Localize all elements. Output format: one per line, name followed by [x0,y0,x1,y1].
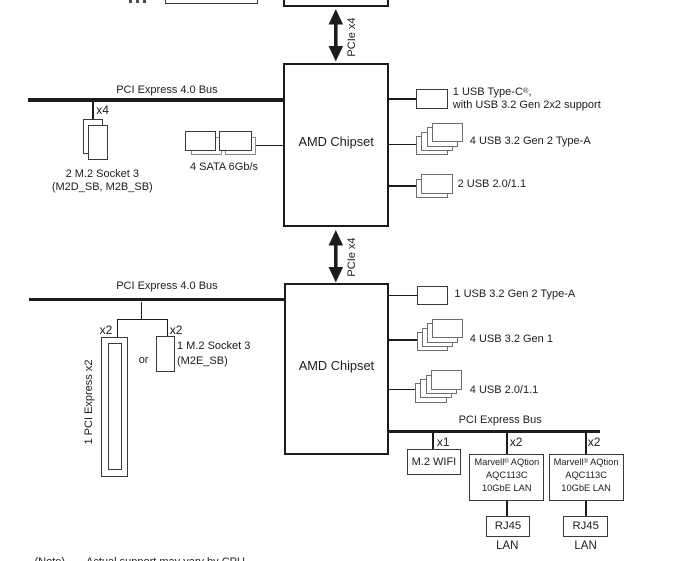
label 4 USB 3.2 Gen 2 Type-A [470,136,591,147]
wire: chipset2 to USB box [389,295,416,297]
branch T-bar wire [117,319,169,321]
label x1 [437,436,450,448]
label 1 PCI Express x2 (rotated) [83,352,95,452]
bus 2 label [116,281,218,292]
label 2 USB 2.0/1.1 [458,179,527,190]
label 4 USB 3.2 Gen 1 [470,334,553,345]
2 USB 2.0/1.1 stack icon [416,179,448,199]
label PCIe x4 (top) [346,0,358,77]
label PCI Express Bus [459,415,542,426]
bus 2: PCI Express 4.0 Bus [29,298,284,302]
label 1 M.2 Socket 3 [177,339,250,368]
Marvell AQtion LAN box 1 [469,454,544,502]
M.2 socket box (M2E_SB) [156,336,175,372]
label PCIe x4 (bottom) [346,217,358,297]
label x4 [96,104,109,116]
label 4 USB 2.0/1.1 [470,385,539,396]
USB Type-C box [416,89,448,109]
label 1 USB 3.2 Gen 2 Type-A [454,289,575,300]
x1 drop wire [432,433,434,449]
M.2 WIFI box [407,449,461,475]
wire: chipset2 to 4 USB 3.2 Gen1 stack [389,339,416,341]
label x2 (LAN 1) [510,436,523,448]
RJ45 box 2 [563,516,608,538]
1 USB 3.2 Gen 2 Type-A box [417,286,448,305]
wire: Marvell 2 to RJ45 2 [585,501,587,516]
x4 drop wire [92,102,94,121]
label x2 (LAN 2) [588,436,601,448]
label x2 (right) [170,324,183,336]
bus 1: PCI Express 4.0 Bus [28,98,283,102]
left branch drop wire [117,319,119,338]
label 4 SATA 6Gb/s [174,162,274,173]
right branch drop wire [167,319,169,338]
wire: chipset1 to 2 USB 2.0 stack [389,185,416,187]
label 2 M.2 Socket 3 [51,168,153,195]
4 USB 2.0/1.1 stack icon [415,383,447,402]
memory box (cut off at top) [165,0,259,4]
label or [139,355,149,366]
SATA wire [256,145,283,147]
label LAN 1 [482,541,532,552]
chipset 2 box [284,283,390,455]
SATA icon front rects [185,131,217,150]
SATA icon shadows [191,137,223,155]
CPU box (cut off at top) [283,0,389,7]
chipset 1 box [283,63,389,228]
4 USB 3.2 Gen 1 stack icon [417,332,449,351]
4 USB 3.2 Gen 2 stack icon [416,136,448,155]
M.2 socket icon (2 M.2) [83,119,104,154]
chipset 2 label [284,360,390,373]
x2 drop wire (LAN 2) [585,433,587,453]
label x2 (left) [100,324,113,336]
note text (clipped at bottom) [35,557,66,561]
label LAN 2 [561,541,611,552]
label 1 USB Type-C [453,84,601,112]
text fragment dots (clipped label) [129,0,132,3]
x2 drop wire (LAN 1) [506,433,508,453]
wire: chipset2 to 4 USB 2.0 stack [389,389,415,391]
chipset 1 label [283,136,389,149]
Marvell AQtion LAN box 2 [549,454,624,502]
branch stem wire [141,302,143,321]
RJ45 box 1 [486,516,531,538]
wire: Marvell 1 to RJ45 1 [506,501,508,516]
bus 3: PCI Express Bus [387,430,600,434]
wire: chipset1 to USB Type-C box [389,98,416,100]
PCIe x4 arrow 1 [326,8,346,63]
wire: chipset1 to 4 USB 3.2 Gen2 stack [389,144,416,146]
PCI Express slot icon [101,337,128,477]
bus 1 label [116,85,218,96]
PCIe x4 arrow 2 [326,229,346,284]
